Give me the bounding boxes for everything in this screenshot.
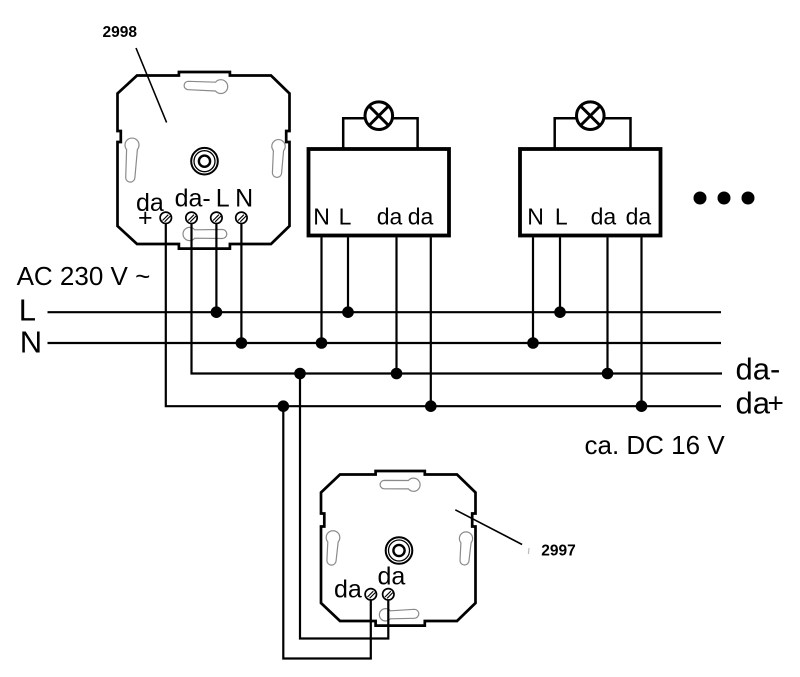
- 2997 right mounting slot: [459, 532, 472, 565]
- wire ECG2 N to bus: [532, 237, 534, 343]
- ballast ECG1 lamp symbol: [365, 102, 393, 130]
- svg-text:da: da: [334, 576, 362, 604]
- svg-text:+: +: [768, 388, 784, 419]
- svg-text:da-: da-: [736, 352, 781, 387]
- wire N bus: [48, 342, 722, 344]
- 2998 right mounting slot: [272, 140, 285, 178]
- wire 2998 L to bus: [215, 224, 217, 313]
- junction 2998 L: [211, 306, 223, 318]
- wire ECG2 da to da+ bus: [640, 237, 642, 406]
- ballast ECG1 lamp loop: [343, 118, 417, 150]
- junction ECG1 L: [342, 306, 354, 318]
- svg-text:da: da: [377, 204, 403, 230]
- ballast ECG2 box: [520, 149, 661, 236]
- junction 2997 da+ drop: [278, 400, 290, 412]
- wire da+ bus to 2997 left screw: [283, 406, 371, 658]
- svg-text:AC 230 V ~: AC 230 V ~: [17, 261, 151, 291]
- 2998 top mounting slot: [184, 80, 228, 94]
- wire ECG1 N to bus: [320, 237, 322, 343]
- 2997 left mounting slot: [326, 531, 340, 565]
- wire da- bus from 2998: [192, 224, 723, 374]
- 2998 left mounting slot: [125, 138, 139, 182]
- 2998 rotary knob: [191, 148, 218, 175]
- svg-text:da: da: [378, 563, 406, 591]
- svg-text:L: L: [555, 204, 568, 230]
- svg-text:2998: 2998: [103, 24, 138, 41]
- svg-text:da-: da-: [175, 184, 211, 212]
- junction ECG1 da+: [425, 400, 437, 412]
- wire da- bus to 2997 right screw: [300, 374, 388, 639]
- 2997 screw terminal left: [365, 589, 376, 600]
- potentiometer unit 2998 outline: [118, 72, 290, 249]
- svg-text:N: N: [20, 325, 42, 360]
- ballast ECG1 box: [309, 149, 450, 236]
- junction 2998 N: [236, 337, 248, 349]
- junction ECG1 N: [316, 337, 328, 349]
- wire ECG2 L to bus: [559, 237, 561, 312]
- wire ECG1 L to bus: [347, 237, 349, 312]
- 2997 top mounting slot: [380, 478, 420, 491]
- wire ECG2 da to da- bus: [606, 237, 608, 373]
- potentiometer unit 2997 outline: [321, 471, 476, 626]
- svg-text:L: L: [339, 204, 352, 230]
- pointer line to 2997: [455, 510, 522, 545]
- pointer line to 2998: [136, 48, 167, 123]
- 2998 screw terminal da-: [186, 212, 197, 223]
- svg-text:N: N: [313, 204, 330, 230]
- svg-text:da: da: [626, 204, 652, 230]
- wire ECG1 da to da+ bus: [430, 237, 432, 406]
- svg-text:da: da: [591, 204, 617, 230]
- ballast ECG2 lamp loop: [555, 118, 631, 150]
- 2998 bottom mounting slot: [183, 227, 227, 240]
- 2997 screw terminal right: [383, 589, 394, 600]
- svg-text:N: N: [235, 184, 253, 212]
- 2998 screw terminal da+: [160, 212, 171, 223]
- junction ECG2 da+: [636, 400, 648, 412]
- wire 2998 N to bus: [240, 224, 242, 344]
- svg-text:N: N: [527, 204, 544, 230]
- wire L bus: [48, 311, 722, 313]
- ellipsis dot 3: [742, 192, 755, 205]
- ellipsis dot 2: [718, 192, 731, 205]
- svg-text:L: L: [19, 293, 36, 328]
- 2998 screw terminal N: [236, 212, 247, 223]
- svg-text:L: L: [216, 184, 230, 212]
- 2997 rotary knob: [386, 537, 413, 564]
- junction ECG2 N: [527, 337, 539, 349]
- svg-text:ca. DC 16 V: ca. DC 16 V: [585, 430, 726, 460]
- small tick before 2997: [527, 548, 530, 554]
- junction ECG1 da-: [391, 368, 403, 380]
- junction 2997 da- drop: [294, 368, 306, 380]
- 2998 screw terminal L: [211, 212, 222, 223]
- wire da+ bus from 2998: [166, 224, 721, 407]
- ballast ECG2 lamp symbol: [577, 102, 605, 130]
- svg-text:da: da: [736, 386, 771, 421]
- junction ECG2 da-: [602, 368, 614, 380]
- svg-text:+: +: [138, 204, 153, 232]
- svg-text:2997: 2997: [541, 543, 575, 560]
- wire ECG1 da to da- bus: [395, 237, 397, 373]
- ellipsis dot 1: [694, 192, 707, 205]
- 2997 bottom mounting slot: [379, 609, 418, 621]
- junction ECG2 L: [554, 306, 566, 318]
- svg-text:da: da: [408, 204, 434, 230]
